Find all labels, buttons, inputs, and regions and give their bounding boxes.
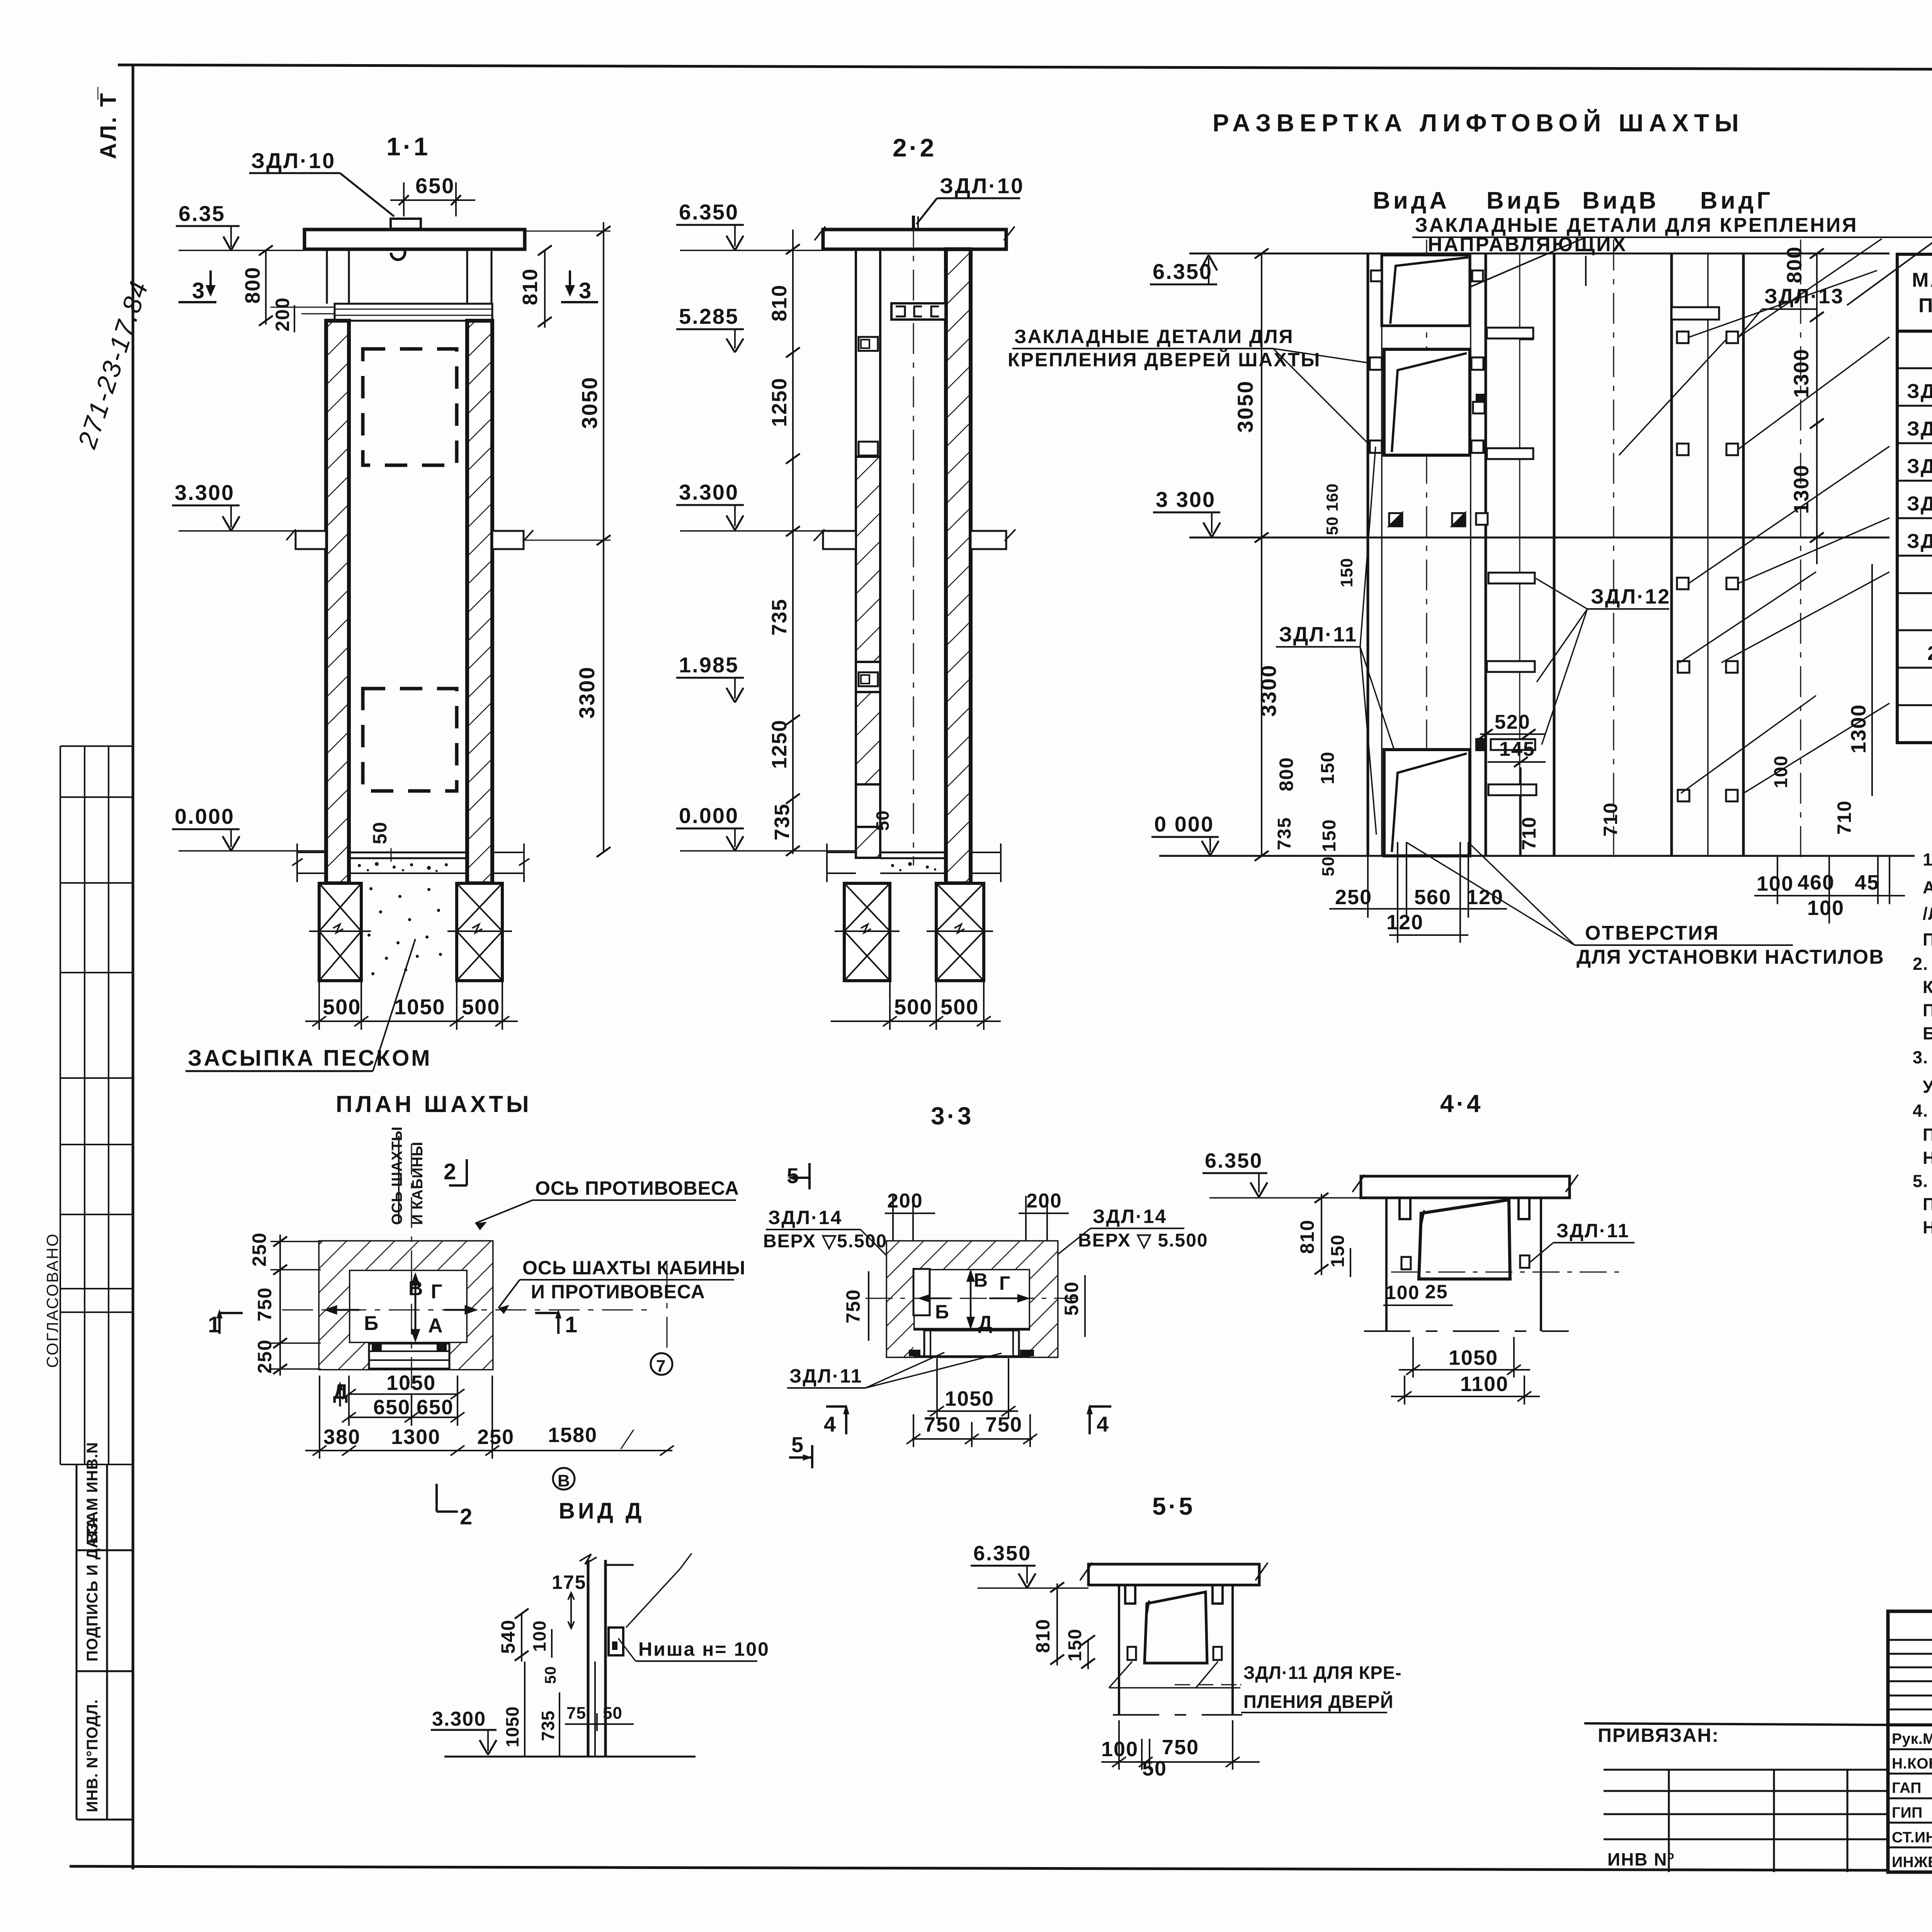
svg-text:250: 250 xyxy=(477,1425,514,1449)
embeds xyxy=(1401,1257,1411,1269)
svg-text:Б: Б xyxy=(935,1301,949,1323)
svg-text:50: 50 xyxy=(1142,1757,1167,1780)
slab xyxy=(1361,1176,1570,1198)
svg-text:ВЕРХ ▽ 5.500: ВЕРХ ▽ 5.500 xyxy=(1078,1230,1208,1251)
svg-text:5. ЗАЛИВКУ ЧИСТОГо ПОЛА Н: 5. ЗАЛИВКУ ЧИСТОГо ПОЛА НА 50 ММ В ПРИЯМ… xyxy=(1913,1171,1932,1191)
door leaf xyxy=(1419,1200,1510,1279)
vid B guide embeds (bars) xyxy=(1487,328,1536,795)
svg-text:520: 520 xyxy=(1495,711,1531,733)
svg-text:45: 45 xyxy=(1855,871,1879,894)
svg-text:ЗДЛ·11 ДЛЯ КРЕ-: ЗДЛ·11 ДЛЯ КРЕ- xyxy=(1243,1662,1402,1683)
svg-text:200: 200 xyxy=(272,297,293,332)
svg-text:3: 3 xyxy=(192,278,204,303)
svg-text:1300: 1300 xyxy=(1790,349,1813,398)
svg-text:1300: 1300 xyxy=(1847,704,1870,753)
svg-text:150: 150 xyxy=(1337,558,1356,587)
svg-text:6.350: 6.350 xyxy=(973,1542,1031,1565)
upper small table xyxy=(60,746,133,1464)
svg-text:735: 735 xyxy=(768,599,791,636)
svg-text:ПРИВЯЗАН:: ПРИВЯЗАН: xyxy=(1598,1725,1719,1746)
svg-text:ПОМЕЩЕНИЕМ, ЛИСТ АТ-Б.09-001: ПОМЕЩЕНИЕМ, ЛИСТ АТ-Б.09-001/. xyxy=(1923,930,1932,949)
svg-text:СТ.ИНЖ.: СТ.ИНЖ. xyxy=(1892,1829,1932,1846)
svg-text:ЗДЛ·11: ЗДЛ·11 xyxy=(1556,1220,1630,1242)
embeds left jamb xyxy=(1370,357,1382,370)
svg-text:750: 750 xyxy=(924,1413,961,1436)
svg-text:100: 100 xyxy=(1101,1738,1138,1761)
left dim line 3050/3300 xyxy=(1261,253,1262,856)
svg-text:650: 650 xyxy=(417,1396,454,1419)
sand fill dots between foundations xyxy=(367,887,442,975)
svg-text:Б: Б xyxy=(364,1312,378,1335)
svg-text:ВЕРХ ▽5.500: ВЕРХ ▽5.500 xyxy=(763,1231,887,1252)
SEC 5-5 xyxy=(971,1492,1402,1780)
clips xyxy=(1125,1585,1135,1604)
left small table xyxy=(1604,1770,1888,1872)
svg-text:75: 75 xyxy=(566,1704,586,1723)
embeds right jamb xyxy=(1471,357,1483,370)
svg-text:ВИД Д: ВИД Д xyxy=(559,1498,645,1524)
left dims 810 1250 735 1250 735 xyxy=(792,230,794,854)
grid xyxy=(1897,254,1932,743)
svg-text:1050: 1050 xyxy=(945,1387,994,1410)
svg-text:150: 150 xyxy=(1328,1234,1348,1267)
vid G top bar xyxy=(1672,307,1719,320)
outline xyxy=(887,1242,1057,1357)
svg-text:ЗДЛ 13: ЗДЛ 13 xyxy=(1907,455,1932,478)
plan walls xyxy=(320,1242,492,1369)
sand dots in pit floor xyxy=(358,862,448,872)
svg-text:В: В xyxy=(974,1269,988,1291)
svg-text:650: 650 xyxy=(373,1396,410,1419)
svg-text:0 000: 0 000 xyxy=(1154,812,1214,836)
svg-text:175: 175 xyxy=(552,1571,586,1593)
svg-text:250: 250 xyxy=(248,1232,270,1267)
svg-text:ВидВ: ВидВ xyxy=(1582,187,1659,214)
leaders to embeds xyxy=(1109,1662,1132,1688)
centerline xyxy=(913,216,914,866)
vid G square pairs xyxy=(1677,332,1738,801)
LEFT MARGIN xyxy=(43,87,154,1820)
svg-text:500: 500 xyxy=(323,995,361,1019)
svg-text:800: 800 xyxy=(1276,757,1297,791)
svg-text:560: 560 xyxy=(1061,1281,1082,1316)
svg-text:ПОЛНОТЕЛОГО КИРПИЧА МАРКИ М: ПОЛНОТЕЛОГО КИРПИЧА МАРКИ М 100 С РАСШИВ… xyxy=(1923,1125,1932,1145)
cavity xyxy=(349,1270,468,1343)
svg-text:2·2: 2·2 xyxy=(893,133,936,162)
svg-text:ЗДЛ 10: ЗДЛ 10 xyxy=(1907,530,1932,553)
small squares left of bars xyxy=(1472,270,1488,525)
svg-text:810: 810 xyxy=(1296,1219,1318,1254)
svg-text:3050: 3050 xyxy=(577,376,602,429)
svg-text:ВидБ: ВидБ xyxy=(1486,187,1563,214)
svg-text:5: 5 xyxy=(787,1163,799,1188)
svg-text:КЛАДКЕ СТЕН ОСТАВИТЬ ГНЕЗДА: КЛАДКЕ СТЕН ОСТАВИТЬ ГНЕЗДА В РАЗМЕР ЗАК… xyxy=(1923,977,1932,997)
vid A lower door (second storey) xyxy=(1384,750,1470,856)
svg-text:710: 710 xyxy=(1600,802,1621,837)
svg-text:100: 100 xyxy=(1771,755,1791,788)
svg-text:5.285: 5.285 xyxy=(679,304,739,328)
upper small grid xyxy=(1888,1640,1932,1709)
bottom line 0.000 xyxy=(1159,855,1915,857)
centerlines xyxy=(282,1310,653,1311)
svg-text:120: 120 xyxy=(1466,886,1503,909)
top slab xyxy=(304,230,525,249)
svg-text:НАПРАВЛЯЮЩих.: НАПРАВЛЯЮЩих. xyxy=(1923,1218,1932,1237)
niche xyxy=(609,1628,623,1655)
svg-text:100: 100 xyxy=(1385,1282,1420,1303)
left dims 250 750 250 xyxy=(279,1235,281,1376)
upper walls (machine room) xyxy=(327,249,492,304)
svg-text:750: 750 xyxy=(254,1287,276,1321)
svg-text:1050: 1050 xyxy=(386,1371,436,1395)
svg-text:ЗДЛ·13: ЗДЛ·13 xyxy=(1764,285,1844,308)
top break xyxy=(580,1554,597,1564)
svg-text:ОТВЕРСТИЯ: ОТВЕРСТИЯ xyxy=(1585,922,1719,944)
svg-text:2. ДЛЯ УСТАНОВКИ ЗАКЛАДНЫХ Д: 2. ДЛЯ УСТАНОВКИ ЗАКЛАДНЫХ ДЕТАЛЕЙ ЗДЛ10… xyxy=(1913,954,1932,974)
svg-text:ЗАКЛАДНЫЕ ДЕТАЛИ ДЛЯ: ЗАКЛАДНЫЕ ДЕТАЛИ ДЛЯ xyxy=(1014,326,1294,347)
svg-text:4: 4 xyxy=(1097,1412,1109,1436)
svg-text:2: 2 xyxy=(460,1504,472,1529)
svg-text:735: 735 xyxy=(770,803,794,840)
svg-text:ОСЬ ШАХТЫ: ОСЬ ШАХТЫ xyxy=(389,1126,405,1225)
svg-text:ПОЗ.: ПОЗ. xyxy=(1918,294,1932,317)
svg-text:/ЛИФТ ГРУЗОВОЙ МАЛЫЙ Q=100 КГ: /ЛИФТ ГРУЗОВОЙ МАЛЫЙ Q=100 КГ С ВЕРХНИМ … xyxy=(1923,904,1932,923)
svg-text:2: 2 xyxy=(1927,642,1932,665)
svg-text:3: 3 xyxy=(579,278,591,303)
RAZVERTKA xyxy=(1008,109,1932,968)
svg-text:3300: 3300 xyxy=(575,666,599,719)
svg-text:ПРОИЗВодИтЬ При МОНТАЖЕ, ПО: ПРОИЗВодИтЬ При МОНТАЖЕ, ПОСЛЕ УСТАНОВКи xyxy=(1923,1194,1932,1214)
svg-text:ВидГ: ВидГ xyxy=(1700,187,1773,214)
TITLE BLOCK xyxy=(1584,1611,1932,1924)
axis circle 7 xyxy=(667,1264,668,1352)
svg-text:4. КЛАДКА СТЕН ШАХТЫ ВЫПОЛН: 4. КЛАДКА СТЕН ШАХТЫ ВЫПОЛНЯЕТСЯ ИЗ КРАС… xyxy=(1913,1101,1932,1121)
svg-text:1300: 1300 xyxy=(391,1425,440,1449)
small embeds on left wall xyxy=(859,337,878,351)
svg-text:А: А xyxy=(428,1315,443,1337)
left thin wall xyxy=(856,249,880,850)
svg-text:Д: Д xyxy=(978,1312,992,1333)
main hatched walls xyxy=(326,321,349,883)
svg-text:1050: 1050 xyxy=(502,1706,522,1747)
svg-text:МАРКА: МАРКА xyxy=(1912,269,1932,291)
bottom line xyxy=(444,1756,696,1758)
dark floor sockets xyxy=(1389,513,1467,842)
side extension ticks at pit xyxy=(292,844,529,882)
svg-text:ПЛАН ШАХТЫ: ПЛАН ШАХТЫ xyxy=(336,1091,532,1117)
svg-text:ЗДЛ·11: ЗДЛ·11 xyxy=(1279,623,1357,646)
embeds xyxy=(1128,1647,1136,1660)
svg-text:6.350: 6.350 xyxy=(1205,1149,1263,1172)
svg-text:ОСЬ ПРОТИВОВЕСА: ОСЬ ПРОТИВОВЕСА xyxy=(535,1177,739,1199)
svg-text:РАЗВЕРТКА ЛИФТОВОЙ ШАХТЫ: РАЗВЕРТКА ЛИФТОВОЙ ШАХТЫ xyxy=(1213,109,1744,137)
svg-text:50: 50 xyxy=(872,810,893,831)
svg-text:1.985: 1.985 xyxy=(679,653,739,677)
svg-text:650: 650 xyxy=(415,173,455,198)
svg-text:100: 100 xyxy=(529,1620,549,1652)
svg-text:ПЛЕНИЯ ДВЕРЙ: ПЛЕНИЯ ДВЕРЙ xyxy=(1243,1691,1394,1712)
svg-text:50 160: 50 160 xyxy=(1323,483,1341,535)
svg-text:735: 735 xyxy=(538,1710,558,1741)
vid A upper door xyxy=(1382,255,1470,326)
svg-text:ПОСЛЕ МОНТАЖА ЗАКЛАДНЫХ ОТВЕ: ПОСЛЕ МОНТАЖА ЗАКЛАДНЫХ ОТВЕРСТИЯ ЗАДЕЛА… xyxy=(1923,1000,1932,1020)
svg-text:150: 150 xyxy=(1318,751,1338,784)
upper-left embeds of vid A column xyxy=(1371,270,1382,281)
svg-text:ГАП: ГАП xyxy=(1892,1780,1922,1796)
svg-text:ЗДЛ·10: ЗДЛ·10 xyxy=(940,173,1024,198)
svg-text:50: 50 xyxy=(369,821,391,844)
lower labelled boxes xyxy=(77,1464,133,1820)
svg-text:735: 735 xyxy=(1274,817,1295,850)
middle slab 3.300 projections xyxy=(296,531,524,549)
foundation blocks xyxy=(835,883,900,981)
svg-text:ИНВ Nº: ИНВ Nº xyxy=(1607,1849,1675,1869)
svg-text:0.000: 0.000 xyxy=(175,804,235,828)
svg-text:4·4: 4·4 xyxy=(1440,1090,1483,1117)
ground line xyxy=(1113,1714,1242,1716)
left corner niche xyxy=(913,1269,930,1315)
side ticks at pit xyxy=(827,844,1001,882)
diagonal leaders vid V/G xyxy=(1619,239,1889,793)
svg-text:800: 800 xyxy=(1783,246,1806,283)
svg-text:1: 1 xyxy=(565,1312,577,1337)
svg-text:1300: 1300 xyxy=(1790,464,1813,514)
leader to top right xyxy=(626,1569,680,1628)
svg-text:750: 750 xyxy=(1162,1736,1199,1759)
top line 6.350 xyxy=(1189,253,1889,255)
svg-text:Г: Г xyxy=(431,1281,442,1303)
walls xyxy=(1118,1585,1120,1715)
middle slab 3.300 projections xyxy=(823,531,1006,549)
svg-text:5: 5 xyxy=(791,1432,803,1457)
svg-text:Н.КОНТР.: Н.КОНТР. xyxy=(1892,1755,1932,1772)
right dim chain 800 1300 1300 xyxy=(1816,253,1818,564)
svg-text:Г: Г xyxy=(999,1272,1010,1294)
svg-text:УКАЗАНИЯМИ АЛЬБОМА АТ-Б.00-: УКАЗАНИЯМИ АЛЬБОМА АТ-Б.00-003 РАЗДЕЛ Т̆… xyxy=(1923,1077,1932,1097)
slab xyxy=(1088,1564,1259,1585)
svg-text:50: 50 xyxy=(1319,856,1338,876)
SEC 4-4 xyxy=(1202,1090,1634,1405)
svg-text:810: 810 xyxy=(1032,1619,1054,1653)
center dash xyxy=(1391,1272,1619,1273)
middle line 3.300 xyxy=(1189,537,1889,539)
svg-text:6.35: 6.35 xyxy=(179,201,225,226)
svg-text:ВидА: ВидА xyxy=(1373,187,1450,214)
svg-text:710: 710 xyxy=(1833,800,1855,835)
pit floor xyxy=(349,852,467,854)
svg-text:ОСЬ ШАХТЫ КАБИНЫ: ОСЬ ШАХТЫ КАБИНЫ xyxy=(522,1257,745,1279)
direction arrows xyxy=(327,1275,475,1340)
svg-text:3 300: 3 300 xyxy=(1156,487,1216,512)
svg-text:1250: 1250 xyxy=(768,719,791,769)
pit floor xyxy=(880,852,946,854)
hook mark on slab xyxy=(912,216,915,230)
svg-text:В: В xyxy=(558,1471,570,1490)
top slab xyxy=(823,230,1006,249)
svg-text:ЗАСЫПКА ПЕСКОМ: ЗАСЫПКА ПЕСКОМ xyxy=(188,1046,432,1071)
svg-text:150: 150 xyxy=(1319,819,1340,852)
machine floor slab 5.285 xyxy=(335,304,492,321)
svg-text:1100: 1100 xyxy=(1460,1372,1509,1396)
svg-text:1250: 1250 xyxy=(768,378,791,427)
svg-text:200: 200 xyxy=(1026,1190,1062,1212)
channel detail at 5.285 xyxy=(891,303,946,320)
axis circle V xyxy=(618,1430,634,1453)
hatched segments of left wall xyxy=(856,457,880,662)
NOTES xyxy=(1913,850,1932,1237)
svg-text:ЗДЛ·14: ЗДЛ·14 xyxy=(1093,1206,1167,1227)
svg-text:3.300: 3.300 xyxy=(432,1708,486,1730)
VID D xyxy=(431,1553,770,1757)
arrow D xyxy=(339,1385,341,1406)
svg-text:500: 500 xyxy=(894,995,932,1019)
svg-text:ЗДЛ·10: ЗДЛ·10 xyxy=(251,148,336,173)
right hatched wall xyxy=(946,249,971,883)
foundation block left xyxy=(309,883,371,981)
SPEC TABLE xyxy=(1897,230,1932,743)
hook piece on top of slab xyxy=(391,219,421,229)
svg-text:250: 250 xyxy=(1335,886,1372,909)
dashed door opening lower xyxy=(363,689,457,791)
door leaf xyxy=(1145,1592,1207,1663)
svg-text:500: 500 xyxy=(940,995,979,1019)
svg-text:2: 2 xyxy=(444,1159,456,1184)
wall verticals xyxy=(587,1560,590,1757)
foundation block right xyxy=(447,883,512,981)
svg-text:Архитектурных ЧЕРТЕЖЕЙ АЛЬБОМА: Архитектурных ЧЕРТЕЖЕЙ АЛЬБОМА ДТ-Б.00-0… xyxy=(1923,878,1932,897)
svg-text:И ПРОТИВОВЕСА: И ПРОТИВОВЕСА xyxy=(531,1281,705,1303)
svg-text:ЗДЛ 11: ЗДЛ 11 xyxy=(1907,380,1932,403)
dashed door opening upper xyxy=(363,349,457,465)
vid A lower door xyxy=(1384,349,1470,455)
svg-text:250: 250 xyxy=(254,1339,276,1374)
svg-text:1050: 1050 xyxy=(394,995,446,1019)
SEC 3-3 xyxy=(763,1102,1208,1468)
SECTION 2-2 xyxy=(676,133,1024,1030)
svg-text:6.350: 6.350 xyxy=(679,200,739,224)
svg-text:1·1: 1·1 xyxy=(386,132,430,161)
svg-text:1580: 1580 xyxy=(548,1423,597,1447)
svg-text:НА ЦЕМЕНТНОм РАСТВОРЕ М 50.: НА ЦЕМЕНТНОм РАСТВОРЕ М 50. xyxy=(1923,1148,1932,1168)
svg-text:100: 100 xyxy=(1757,872,1794,895)
PLAN xyxy=(208,1091,745,1529)
svg-text:ДЛЯ УСТАНОВКИ НАСТИЛОВ: ДЛЯ УСТАНОВКИ НАСТИЛОВ xyxy=(1577,946,1884,968)
svg-text:3·3: 3·3 xyxy=(931,1102,974,1130)
svg-text:БЕТОНОМ НА МЕЛКОм ЗАПолнител: БЕТОНОМ НА МЕЛКОм ЗАПолнителе. xyxy=(1923,1024,1932,1043)
svg-text:100: 100 xyxy=(1807,896,1844,920)
door bottom lines xyxy=(923,1330,925,1357)
svg-text:810: 810 xyxy=(768,284,791,321)
svg-text:810: 810 xyxy=(519,268,542,305)
svg-text:ИНВ. N°ПОДЛ.: ИНВ. N°ПОДЛ. xyxy=(84,1699,101,1812)
svg-text:500: 500 xyxy=(462,995,500,1019)
svg-text:В: В xyxy=(408,1277,423,1300)
clips below slab xyxy=(1400,1198,1410,1219)
svg-text:120: 120 xyxy=(1386,911,1423,934)
svg-text:4: 4 xyxy=(824,1412,836,1436)
svg-text:Рук.МАСТ: Рук.МАСТ xyxy=(1892,1731,1932,1747)
main horizontal divider xyxy=(1888,1723,1932,1726)
panel vertical lines xyxy=(1368,253,1743,856)
svg-text:СОГЛАСОВАНО: СОГЛАСОВАНО xyxy=(43,1233,61,1368)
svg-text:560: 560 xyxy=(1414,886,1451,909)
hatches: top band, left band, right band, bottom jambs xyxy=(320,1242,492,1270)
svg-text:ГИП: ГИП xyxy=(1892,1804,1923,1821)
svg-text:800: 800 xyxy=(241,267,264,304)
svg-text:ЗДЛ·12: ЗДЛ·12 xyxy=(1591,585,1670,608)
svg-text:ЗДЛ 14: ЗДЛ 14 xyxy=(1907,493,1932,515)
svg-text:КРЕПЛЕНИЯ ДВЕРЕЙ ШАХТЫ: КРЕПЛЕНИЯ ДВЕРЕЙ ШАХТЫ xyxy=(1008,349,1321,371)
svg-text:3. ПРОИЗВОДСТВО РАБОТ ВЕСТИ: 3. ПРОИЗВОДСТВО РАБОТ ВЕСТИ В СООТВЕТСТВ… xyxy=(1913,1048,1932,1067)
svg-text:ПОДПИСЬ И ДАТА: ПОДПИСЬ И ДАТА xyxy=(84,1517,101,1662)
svg-text:3300: 3300 xyxy=(1256,664,1281,717)
svg-text:ЗДЛ·11: ЗДЛ·11 xyxy=(789,1365,863,1387)
svg-text:540: 540 xyxy=(497,1619,519,1654)
offset dim 1300 lower right xyxy=(1871,564,1873,796)
svg-text:ЗДЛ·14: ЗДЛ·14 xyxy=(768,1207,842,1228)
svg-text:750: 750 xyxy=(842,1289,864,1323)
svg-text:0.000: 0.000 xyxy=(679,803,739,828)
walls xyxy=(1385,1198,1388,1331)
svg-text:50: 50 xyxy=(603,1704,622,1723)
svg-text:145: 145 xyxy=(1499,738,1535,760)
svg-text:1. СТРОИТЕЛЬНАЯ ЧАСТЬ ЛИФТА: 1. СТРОИТЕЛЬНАЯ ЧАСТЬ ЛИФТА РАЗРАБОТАНА … xyxy=(1923,850,1932,869)
signature rows xyxy=(1888,1749,1932,1847)
svg-text:3050: 3050 xyxy=(1233,380,1257,433)
svg-text:25: 25 xyxy=(1425,1281,1448,1303)
svg-text:Ниша н= 100: Ниша н= 100 xyxy=(638,1638,770,1660)
svg-text:АЛ. Т̅: АЛ. Т̅ xyxy=(96,87,121,159)
door opening lines xyxy=(368,1343,370,1369)
outer box xyxy=(1888,1611,1932,1872)
ground line xyxy=(1364,1330,1569,1332)
svg-text:7: 7 xyxy=(656,1357,665,1376)
svg-text:3.300: 3.300 xyxy=(175,480,235,505)
svg-text:1050: 1050 xyxy=(1449,1346,1498,1369)
svg-text:ИНЖЕН.: ИНЖЕН. xyxy=(1892,1854,1932,1871)
svg-text:5·5: 5·5 xyxy=(1152,1492,1195,1520)
wall inner lines at bottom xyxy=(594,1662,596,1757)
svg-text:380: 380 xyxy=(323,1425,361,1449)
svg-text:750: 750 xyxy=(985,1413,1022,1436)
SECTION 1-1 xyxy=(172,132,611,1071)
svg-text:ЗДЛ 12: ЗДЛ 12 xyxy=(1907,418,1932,440)
svg-text:50: 50 xyxy=(542,1666,559,1684)
svg-text:3.300: 3.300 xyxy=(679,480,739,504)
